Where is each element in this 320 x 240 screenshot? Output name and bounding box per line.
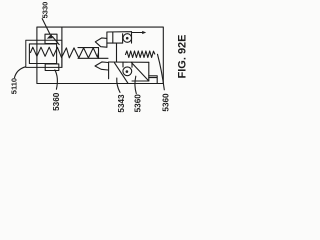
leader 5110 bbox=[15, 67, 26, 78]
housing outer rectangle bbox=[37, 27, 163, 83]
rocker top bracket bar bbox=[107, 32, 132, 48]
leader 5343 bbox=[117, 78, 120, 92]
bracket inner vertical bbox=[112, 32, 114, 43]
bottom-right ledge bbox=[149, 76, 157, 84]
direction arrowhead bbox=[142, 31, 146, 34]
slider frame outer rectangle bbox=[26, 40, 62, 67]
right box diagonal bbox=[131, 62, 148, 80]
right box right edge bbox=[148, 62, 150, 81]
bottom pivot circle bbox=[123, 67, 132, 76]
svg-text:5110: 5110 bbox=[9, 78, 18, 94]
svg-text:5343: 5343 bbox=[117, 94, 126, 113]
svg-text:5330: 5330 bbox=[41, 2, 50, 19]
column vertical bbox=[116, 43, 118, 62]
leader 5330 bbox=[42, 19, 50, 35]
bottom pivot hanger verticals bbox=[123, 62, 132, 67]
diagonal inside top box bbox=[53, 37, 60, 45]
lower plate vertical bbox=[108, 62, 110, 79]
shuttle bottom rail bbox=[78, 57, 108, 59]
leader 5360 left bbox=[55, 70, 58, 89]
top pivot circle bbox=[123, 34, 132, 43]
long spring (left + middle) bbox=[31, 47, 99, 58]
attachment box bottom (target of 5360 left) bbox=[45, 64, 59, 71]
slider frame right wall (full height) bbox=[61, 27, 63, 67]
shuttle top rail bbox=[78, 47, 99, 49]
diagonal brace left of bottom pivot bbox=[115, 63, 129, 84]
bottom pivot pin bbox=[126, 70, 129, 73]
leader 5360 mid bbox=[135, 76, 136, 93]
top pivot mount verticals bbox=[123, 32, 132, 43]
right box bottom edge bbox=[132, 80, 149, 82]
big open arrow 2 (lower, pointing left) bbox=[95, 62, 108, 70]
slider frame inner rectangle bbox=[29, 44, 56, 64]
rocker second bar bbox=[107, 42, 123, 44]
svg-text:5360: 5360 bbox=[52, 92, 61, 111]
attachment box top (target of 5330) bbox=[45, 34, 57, 43]
leader 5360 right bbox=[158, 54, 165, 90]
top pivot pin bbox=[126, 37, 129, 40]
svg-text:5360: 5360 bbox=[161, 93, 170, 112]
svg-text:FIG. 92E: FIG. 92E bbox=[176, 34, 188, 78]
direction arrow (top right, pointing right) bbox=[132, 32, 143, 34]
shuttle end post bbox=[98, 48, 100, 59]
leader 5330 arrowhead bbox=[47, 34, 53, 39]
right spring (tight zigzag) bbox=[126, 51, 155, 58]
svg-text:5360: 5360 bbox=[133, 94, 142, 113]
big open arrow 1 (upper, pointing left) bbox=[95, 38, 107, 47]
lower bar / box top bbox=[109, 61, 149, 63]
